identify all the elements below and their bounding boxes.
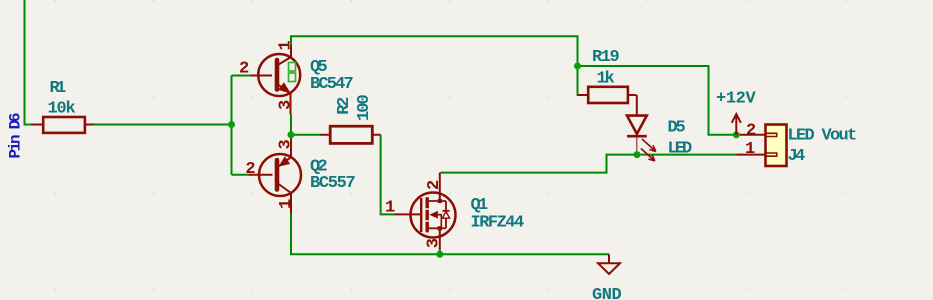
svg-text:1: 1 [277, 41, 296, 51]
svg-text:BC547: BC547 [310, 75, 353, 94]
svg-text:GND: GND [592, 286, 621, 300]
svg-text:2: 2 [746, 121, 756, 140]
svg-text:+12V: +12V [716, 89, 756, 108]
svg-text:3: 3 [276, 100, 295, 110]
svg-text:2: 2 [239, 60, 249, 79]
svg-text:100: 100 [355, 95, 374, 121]
svg-text:R1: R1 [50, 79, 66, 98]
svg-text:1: 1 [277, 199, 296, 209]
svg-text:IRFZ44: IRFZ44 [471, 214, 524, 233]
svg-text:2: 2 [425, 180, 444, 190]
svg-text:D5: D5 [668, 119, 686, 138]
svg-text:LED Vout: LED Vout [788, 126, 857, 145]
svg-text:1: 1 [745, 140, 755, 159]
svg-text:J4: J4 [788, 147, 805, 166]
svg-text:2: 2 [245, 160, 255, 179]
svg-text:R2: R2 [335, 97, 354, 115]
svg-text:3: 3 [425, 238, 444, 248]
svg-text:R19: R19 [592, 48, 619, 67]
svg-text:Q1: Q1 [471, 196, 488, 215]
svg-text:Pin D6: Pin D6 [7, 113, 25, 158]
svg-text:LED: LED [668, 140, 692, 159]
svg-text:10k: 10k [48, 100, 76, 119]
svg-text:BC557: BC557 [310, 174, 355, 193]
svg-text:3: 3 [277, 140, 296, 150]
svg-text:1: 1 [385, 198, 395, 217]
svg-text:1k: 1k [597, 70, 615, 89]
